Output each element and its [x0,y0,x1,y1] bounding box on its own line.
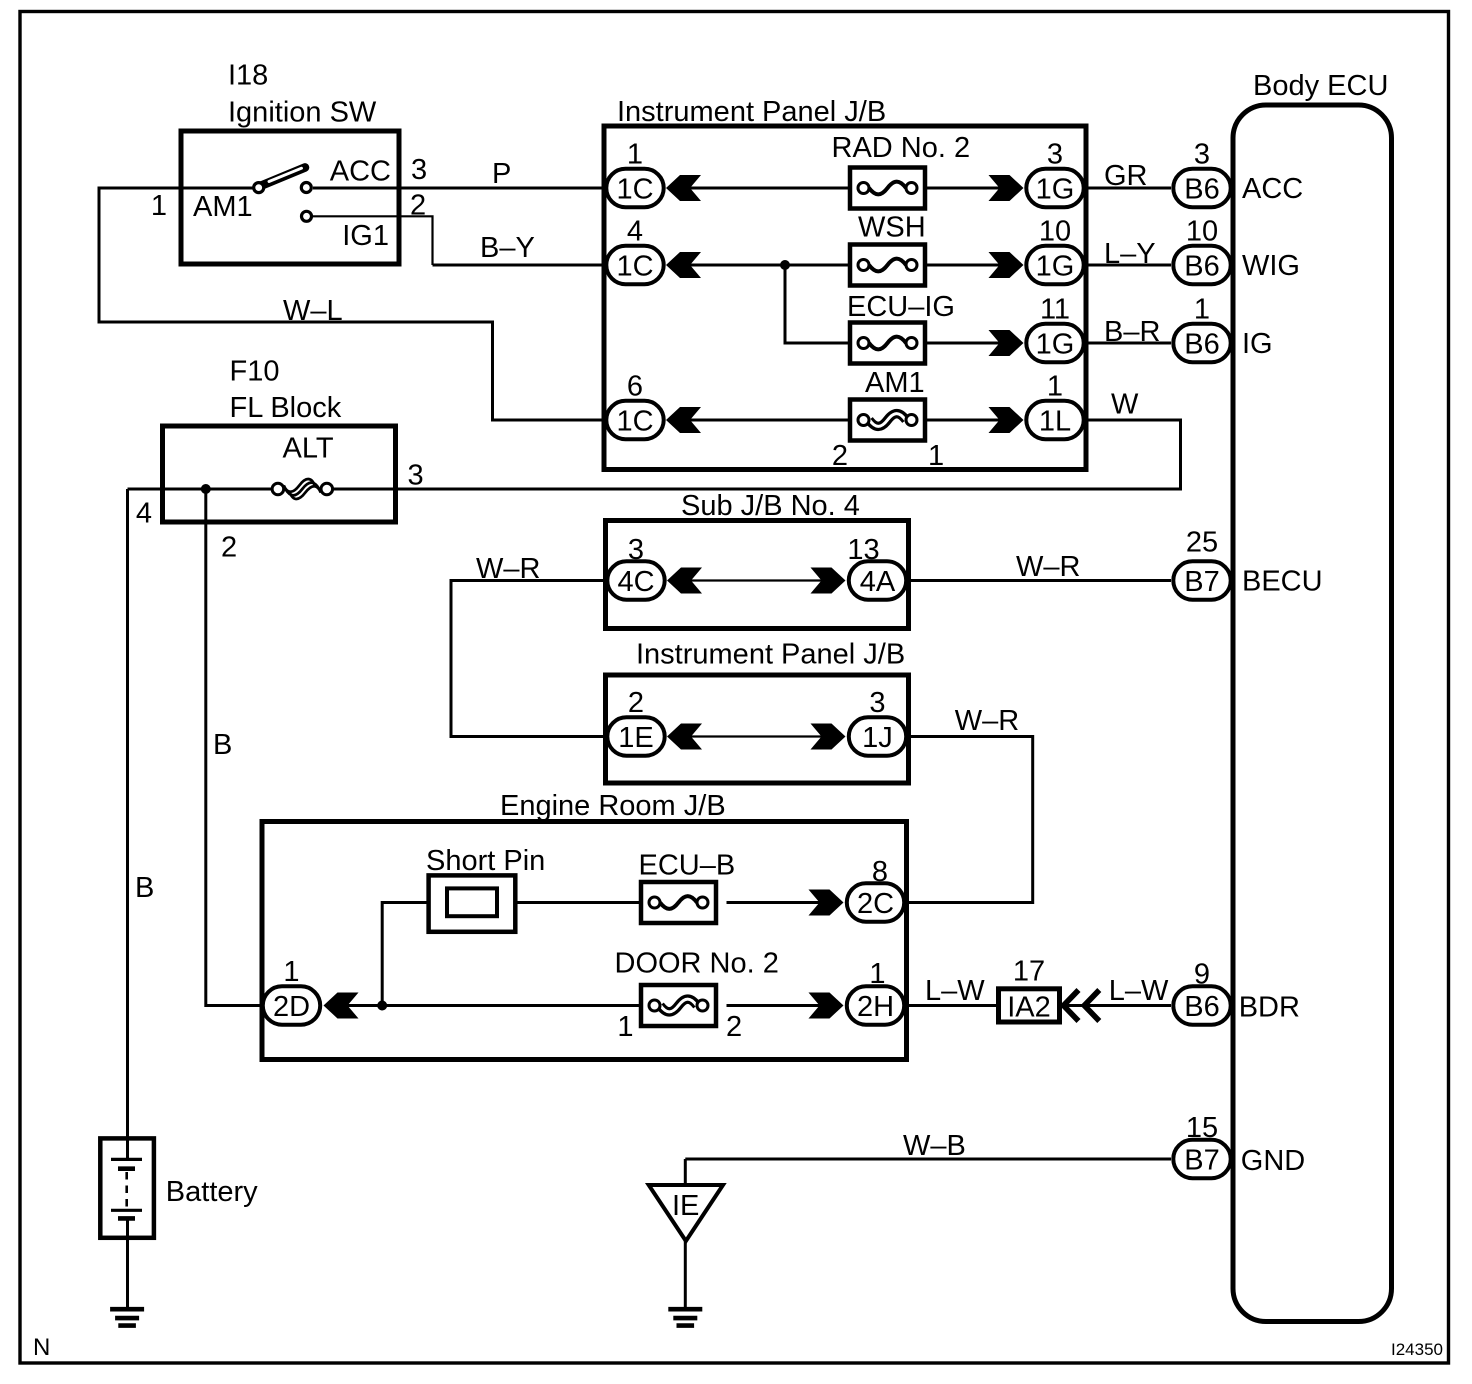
wire W-L: AM1 pin1 to 1C pin6 [99,188,604,420]
svg-text:RAD No. 2: RAD No. 2 [832,132,971,164]
svg-text:2: 2 [726,1011,742,1043]
connector B6 pin 3 (ACC) [1173,169,1230,207]
svg-text:1C: 1C [616,251,653,283]
body ECU box [1233,105,1392,1322]
wire short pin to ECU-B fuse [499,901,655,904]
fuse RAD No. 2 [850,168,925,209]
svg-text:15: 15 [1186,1112,1218,1144]
wire 1C6 to AM1 fuse [690,419,851,422]
arrow (male side) at 1G pin 10 [989,252,1024,278]
svg-text:L–Y: L–Y [1104,238,1156,270]
fuse ECU-IG [850,323,925,364]
svg-text:IA2: IA2 [1007,992,1051,1024]
sub J/B No.4 box [606,521,909,629]
svg-text:4: 4 [627,216,643,248]
fuse DOOR No. 2 [641,985,716,1026]
svg-text:Sub J/B No. 4: Sub J/B No. 4 [681,490,860,522]
svg-text:IG1: IG1 [342,220,389,252]
svg-text:2: 2 [410,190,426,222]
svg-text:2: 2 [221,532,237,564]
connector B6 pin 10 (WIG) [1173,246,1230,284]
arrow (female side) at 1E pin 2 [667,724,702,750]
svg-text:10: 10 [1039,216,1071,248]
connector 1C pin 1 [606,169,663,207]
svg-text:ECU–IG: ECU–IG [847,291,955,323]
arrow (male side) at 1J pin 3 [811,724,846,750]
svg-text:1C: 1C [616,406,653,438]
svg-text:2D: 2D [273,991,310,1023]
engine room J/B box [262,822,907,1060]
svg-text:3: 3 [1047,139,1063,171]
svg-text:1: 1 [283,956,299,988]
svg-text:BDR: BDR [1239,992,1300,1024]
svg-text:B: B [213,729,232,761]
ground point IE [649,1185,723,1241]
svg-text:1: 1 [1047,371,1063,403]
svg-text:17: 17 [1013,956,1045,988]
junction FL block branch [201,484,211,494]
wire B-Y: IG1 to 1C pin4 [433,264,605,267]
arrow (female side) at 1C pin 6 [666,407,701,433]
wire P: ACC contact to 1C pin1 [313,187,604,190]
svg-text:1J: 1J [862,722,893,754]
svg-text:IE: IE [672,1190,699,1222]
svg-text:6: 6 [627,371,643,403]
switch contact IG1 [302,211,312,221]
switch contact ACC [301,183,311,193]
wire W-B: IE to B7 pin 15 [685,1158,1171,1161]
connector B6 pin 9 (BDR) [1173,986,1230,1024]
wire 1C4 to WSH fuse [690,264,851,267]
switch contact AM1 [254,183,264,193]
svg-text:4: 4 [136,498,152,530]
svg-text:L–W: L–W [925,975,985,1007]
svg-text:1: 1 [151,190,167,222]
connector 1G pin 10 [1026,246,1083,284]
ignition switch box I18 [181,131,399,264]
svg-text:B: B [135,872,154,904]
svg-text:Ignition SW: Ignition SW [228,97,377,129]
wire B: battery positive to FL block [126,489,129,1160]
svg-text:W–R: W–R [955,705,1019,737]
connector 4C pin 3 [607,561,664,599]
svg-text:GND: GND [1241,1145,1305,1177]
arrow (female side) at 1C pin 4 [666,252,701,278]
connector B7 pin 25 (BECU) [1173,561,1230,599]
wire battery negative to ground [126,1218,129,1307]
wire L-W: IA2 to B6 pin 9 [1062,1004,1171,1007]
svg-text:3: 3 [411,154,427,186]
svg-text:WIG: WIG [1242,250,1300,282]
svg-text:W: W [1111,389,1139,421]
svg-text:3: 3 [408,460,424,492]
svg-text:8: 8 [872,856,888,888]
svg-text:3: 3 [869,687,885,719]
svg-text:IG: IG [1242,328,1273,360]
wire W: ALT pin 3 to 1L pin 1 [333,420,1181,489]
junction WSH/ECU-IG branch [780,260,790,270]
connector 4A pin 13 [849,561,906,599]
wire W-R: 1J pin 3 to 2C pin 8 [909,737,1033,903]
svg-text:L–W: L–W [1109,975,1169,1007]
connector 1G pin 3 [1026,169,1083,207]
svg-text:ALT: ALT [283,433,334,465]
arrow (female side) at 1C pin 1 [666,175,701,201]
svg-text:GR: GR [1104,160,1148,192]
svg-text:BECU: BECU [1242,566,1323,598]
svg-text:4C: 4C [617,566,654,598]
connector 2C pin 8 [847,883,904,921]
arrow (male side) at 1G pin 3 [989,175,1024,201]
svg-text:1: 1 [617,1011,633,1043]
ground symbol battery ground [110,1309,144,1325]
wire 4C to 4A inside sub J/B [691,579,822,581]
svg-text:B6: B6 [1184,329,1219,361]
svg-text:AM1: AM1 [865,367,925,399]
fusible link ALT [272,479,333,499]
svg-text:B7: B7 [1184,566,1219,598]
wire 1C1 to RAD fuse [690,187,851,190]
svg-text:N: N [33,1334,50,1361]
svg-text:10: 10 [1186,216,1218,248]
arrow (female side) at 4C pin 3 [667,568,702,594]
wire short pin branch [382,903,447,1006]
svg-text:B6: B6 [1184,251,1219,283]
svg-text:2: 2 [628,687,644,719]
wire branch to ECU-IG fuse [785,265,851,343]
junction 2D/short-pin branch [377,1001,387,1011]
svg-text:9: 9 [1194,959,1210,991]
arrow (male side) at 2C pin 8 [809,890,844,916]
wire W-R: 4A pin 13 to B7 pin 25 [909,579,1171,582]
svg-text:Body ECU: Body ECU [1253,70,1388,102]
wire ECU-IG fuse to 1G11 [924,342,1001,345]
wire DOOR fuse to 2H [727,1004,821,1007]
wire ECU-B fuse to 2C [727,901,821,904]
svg-text:ACC: ACC [330,156,391,188]
wire W-R: 4C pin 3 to 1E pin 2 [451,581,604,737]
arrow (female side) at 2D pin 1 [324,993,359,1019]
wire 2D to DOOR fuse [347,1004,655,1007]
wire AM1 fuse to 1L1 [924,419,1001,422]
svg-text:AM1: AM1 [193,191,253,223]
connector IA2 pin 17 [999,989,1060,1024]
svg-text:2H: 2H [857,991,894,1023]
svg-text:F10: F10 [230,356,280,388]
svg-text:W–R: W–R [476,553,540,585]
svg-text:B–Y: B–Y [480,232,535,264]
connector 1L pin 1 [1026,401,1083,439]
arrow (male side) at 2H pin 1 [809,993,844,1019]
svg-text:FL Block: FL Block [230,392,342,424]
connector 1J pin 3 [849,717,906,755]
svg-text:Short Pin: Short Pin [426,845,545,877]
connector 2H pin 1 [847,986,904,1024]
svg-text:I24350: I24350 [1391,1340,1443,1359]
double chevron (in-line connector) [1064,990,1100,1021]
wire B: FL block pin 2 to 2D pin 1 [206,489,261,1006]
svg-text:B6: B6 [1184,991,1219,1023]
svg-text:1G: 1G [1036,251,1075,283]
wire L-W: 2H to IA2 [907,1004,997,1007]
wire B-R: 1G11 to B6-1 [1086,342,1171,345]
wire GR: 1G3 to B6-3 [1086,187,1171,190]
svg-text:1: 1 [928,440,944,472]
instrument panel J/B box [604,126,1086,470]
connector 1C pin 4 [606,246,663,284]
svg-text:1: 1 [627,139,643,171]
connector 2D pin 1 [263,986,320,1024]
wire WSH fuse to 1G10 [924,264,1001,267]
FL block box F10 [163,426,396,522]
connector 1C pin 6 [606,401,663,439]
svg-text:3: 3 [628,534,644,566]
wire RAD fuse to 1G3 [924,187,1001,190]
wire battery feed into FL block pin 4 [128,488,273,491]
connector B7 pin 15 (GND) [1173,1140,1230,1178]
switch lever [262,168,306,186]
fuse ECU-B [641,882,716,923]
svg-text:Instrument Panel J/B: Instrument Panel J/B [617,96,886,128]
svg-text:4A: 4A [860,566,896,598]
battery [100,1138,154,1237]
wire L-Y: 1G10 to B6-10 [1086,264,1171,267]
short pin [429,875,516,931]
instrument panel J/B lower box [606,675,909,783]
svg-text:ECU–B: ECU–B [639,850,736,882]
svg-text:13: 13 [847,534,879,566]
fuse WSH [850,245,925,286]
wire IE triangle feed [684,1159,687,1185]
svg-text:3: 3 [1194,139,1210,171]
svg-text:Instrument Panel J/B: Instrument Panel J/B [636,639,905,671]
svg-text:2: 2 [832,440,848,472]
svg-text:Battery: Battery [166,1176,258,1208]
svg-text:I18: I18 [228,60,268,92]
connector B6 pin 1 (IG) [1173,324,1230,362]
svg-text:WSH: WSH [858,212,926,244]
connector 1E pin 2 [607,717,664,755]
svg-text:1G: 1G [1036,329,1075,361]
svg-text:P: P [492,158,511,190]
svg-text:1E: 1E [618,722,653,754]
svg-text:Engine Room J/B: Engine Room J/B [500,790,726,822]
svg-text:1: 1 [869,958,885,990]
arrow (male side) at 1G pin 11 [989,330,1024,356]
svg-text:1C: 1C [616,174,653,206]
svg-text:W–L: W–L [283,295,343,327]
svg-text:B–R: B–R [1104,316,1160,348]
svg-text:25: 25 [1186,527,1218,559]
svg-text:ACC: ACC [1242,173,1303,205]
svg-text:2C: 2C [857,888,894,920]
svg-text:11: 11 [1040,294,1070,326]
wire IG1 stub [312,216,433,265]
arrow (male side) at 4A pin 13 [811,568,846,594]
ground symbol IE ground [668,1309,702,1325]
svg-text:1L: 1L [1039,406,1071,438]
svg-text:B6: B6 [1184,174,1219,206]
svg-text:DOOR No. 2: DOOR No. 2 [615,948,779,980]
connector 1G pin 11 [1026,324,1083,362]
svg-text:W–R: W–R [1016,551,1080,583]
wire IE to ground [684,1241,687,1307]
svg-text:B7: B7 [1184,1145,1219,1177]
svg-text:W–B: W–B [903,1130,966,1162]
fuse AM1 [850,400,925,441]
svg-text:1: 1 [1194,294,1210,326]
arrow (male side) at 1L pin 1 [989,407,1024,433]
svg-text:1G: 1G [1036,174,1075,206]
wire 1E to 1J inside J/B [691,735,822,737]
